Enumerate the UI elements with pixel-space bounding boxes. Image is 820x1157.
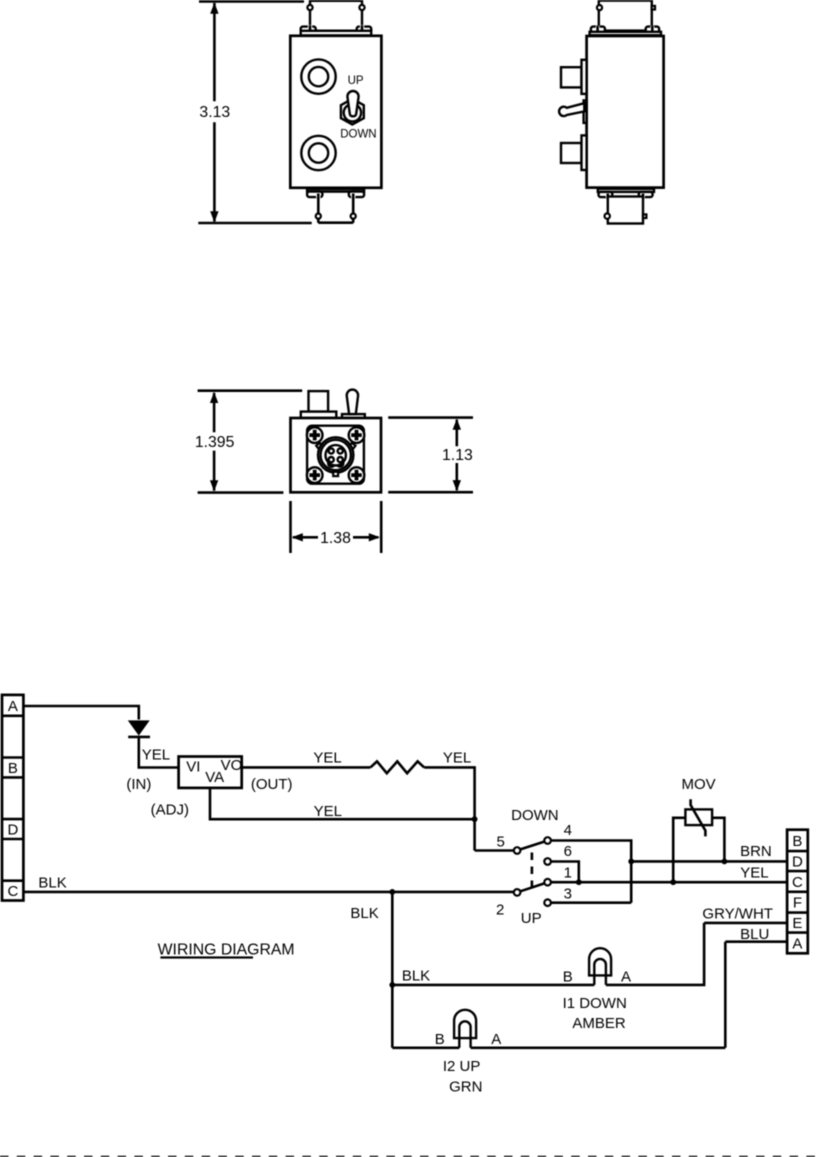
svg-text:DOWN: DOWN [340,129,376,141]
strip P2 divider 2 [787,870,808,873]
svg-text:(IN): (IN) [126,776,151,793]
lower panel connector outer circle [301,136,335,170]
svg-text:I1 DOWN: I1 DOWN [563,995,627,1012]
svg-text:AMBER: AMBER [572,1015,626,1032]
MOV right leg wire [712,818,724,862]
strip P1 divider 1 [2,714,23,717]
top connector plate (top view) [301,412,337,418]
bottom connector rectangle (side view) [608,197,643,224]
svg-text:3: 3 [564,885,572,902]
wire BLK corner to lamp I2 pin B [392,1047,459,1050]
bottom connector terminal circle left [316,214,321,219]
circular connector outer circle (top view) [318,437,353,472]
dimension extension line bottom-left (1.395) [198,491,284,494]
wire diode to regulator IN [139,738,179,768]
screw top-left [307,427,323,443]
toggle nut circle [344,104,361,121]
diode D1 cathode bar [128,736,150,739]
wire pin 1 to terminal C (right) [551,881,787,884]
wire regulator VO to resistor [242,766,371,769]
switch blade 5-4 [520,842,544,850]
wire lamp I2 pin A to BLU corner [471,1047,726,1050]
arrowhead down (1.395) [210,480,218,491]
svg-text:BLK: BLK [38,874,66,891]
mounting tab bottom-right (side view) [639,192,653,197]
toggle flange (side view) [584,100,587,123]
svg-text:I2 UP: I2 UP [443,1058,481,1075]
enclosure box (front view) [290,36,381,188]
dimension extension line top-right (1.13) [388,416,473,419]
wire bus to terminal D (right) [631,860,787,863]
switch pin 5 contact [514,847,521,854]
svg-text:A: A [491,1031,501,1048]
top connector barrel (top view) [309,391,329,412]
svg-text:4: 4 [564,822,572,839]
wire pin 3 to vertical bus [551,901,631,904]
dimension extension line right (1.38) [380,501,383,553]
svg-text:F: F [793,895,802,912]
switch pin 1 contact [544,879,551,886]
svg-text:BRN: BRN [740,843,772,860]
svg-text:6: 6 [564,843,572,860]
dimension extension line top (front view) [199,0,304,3]
dimension extension line top-left (1.395) [198,389,303,392]
svg-text:(ADJ): (ADJ) [151,801,189,818]
arrowhead right (1.38) [369,533,380,541]
svg-text:B: B [563,968,573,985]
contact pin 4 (top view connector) [338,457,343,462]
lamp I1 envelope [589,948,611,975]
top connector rectangle (side view) [599,1,652,31]
top connector terminal circle right [359,5,364,10]
upper panel connector outer circle [301,59,335,93]
arrowhead up (1.13) [453,419,461,430]
toggle plate (top view) [342,414,365,418]
varistor MOV body [685,809,712,825]
mounting tab bottom-left (front view) [307,192,322,198]
svg-text:BLK: BLK [402,967,430,984]
svg-text:C: C [7,883,18,900]
svg-text:5: 5 [497,833,505,850]
svg-text:D: D [7,822,18,839]
mounting tab top-left (front view) [301,27,316,33]
svg-text:B: B [792,833,802,850]
wire resistor to corner [424,767,474,850]
svg-text:1.13: 1.13 [442,447,473,464]
svg-text:1: 1 [564,864,572,881]
contact pin 3 (top view connector) [329,457,334,462]
svg-text:1.395: 1.395 [195,434,235,451]
dimension extension line left (1.38) [289,501,292,553]
svg-text:YEL: YEL [740,864,768,881]
svg-text:1.38: 1.38 [320,530,351,547]
dimension extension line bottom-right (1.13) [388,491,473,494]
wire C to switch pin 2 BLK [23,891,514,894]
wire GRY/WHT to terminal E [704,922,787,925]
dimension line 3.13 vertical [213,3,216,222]
strip P2 divider 5 [787,931,808,934]
wire pin 4 to vertical bus [551,841,631,903]
mounting plate bottom (side view) [598,189,654,192]
bottom connector terminal circle right [351,214,356,219]
wire regulator VA to ADJ node [210,788,475,819]
svg-text:VA: VA [205,769,224,786]
title underline [160,956,253,958]
lamp I1 filament loop [594,959,606,985]
dimension line 1.13 vertical [455,420,458,491]
dimension line 1.395 vertical [213,393,216,491]
dimension extension line bottom (front view) [198,222,311,225]
mounting tab top-right (side view) [646,27,659,33]
svg-text:UP: UP [348,75,364,87]
bottom connector terminal nub right (side view) [643,214,646,218]
toggle lever (side view) [559,103,584,116]
svg-text:GRN: GRN [449,1079,482,1096]
wire from A to diode [23,706,138,720]
svg-text:MOV: MOV [682,776,716,793]
screw bottom-left [307,467,323,483]
strip P1 divider 4 [2,818,23,821]
svg-text:YEL: YEL [142,746,170,763]
top connector terminal circle left [307,5,312,10]
svg-text:VI: VI [186,758,200,775]
svg-text:A: A [8,698,18,715]
strip P2 divider 1 [787,850,808,853]
svg-text:B: B [435,1031,445,1048]
svg-text:2: 2 [496,901,504,918]
bottom connector body wires (front view) [318,194,353,223]
svg-text:DOWN: DOWN [511,807,559,824]
arrowhead left (1.38) [292,533,303,541]
switch pin 3 contact [544,899,551,906]
junction node pin6/pin1 [576,879,582,885]
svg-text:YEL: YEL [313,750,341,767]
resistor R1 [370,761,424,773]
mounting tab bottom-right (front view) [349,192,364,198]
svg-text:D: D [792,854,803,871]
enclosure box (top view) [291,418,382,492]
switch pin 6 contact [544,858,551,865]
varistor MOV diagonal stroke [691,799,706,836]
switch blade 2-1 [520,883,544,891]
upper panel connector inner circle [309,67,328,86]
svg-text:3.13: 3.13 [199,104,230,121]
connector strip P1 (left) [2,695,23,901]
wire lamp I1 pin A to E corner [606,923,704,985]
strip P1 divider 2 [2,756,23,759]
svg-text:WIRING DIAGRAM: WIRING DIAGRAM [158,941,295,958]
toggle bat handle (top view) [347,390,358,415]
strip P1 divider 3 [2,776,23,779]
junction node MOV left leg [670,879,676,885]
pin bumps bottom (top view connector) [328,462,343,466]
lamp I2 envelope [454,1010,476,1038]
junction node BLK branch [389,889,395,895]
top connector terminal nub right (side view) [652,6,655,10]
junction node I1 branch [389,982,395,988]
junction node MOV right leg [722,859,728,865]
keying tab upper-right (top view connector) [349,443,355,449]
lower jack flange (side view) [582,135,587,170]
dimension line 1.38 horizontal [293,536,378,539]
svg-text:BLK: BLK [350,905,378,922]
wire BLU to terminal A [725,940,787,943]
keying tab bottom (top view connector) [333,472,338,476]
top connector terminal circle left (side view) [597,5,602,10]
wire terminal A corner down to lamp I2 [724,942,727,1048]
contact pin 2 (top view connector) [338,448,343,453]
screw top-right [349,427,365,443]
toggle bat handle (front view) [347,91,358,116]
MOV left leg wire [673,818,685,882]
toggle hex nut (front view) [341,99,364,125]
diode D1 anode triangle [128,720,150,735]
strip P2 divider 3 [787,890,808,893]
circular connector insert circle (top view) [326,445,346,465]
wire BLK vertical to lamps [391,892,394,1048]
strip P1 divider 6 [2,879,23,882]
mounting tab bottom-left (side view) [599,192,613,197]
switch pin 4 contact [544,837,551,844]
arrowhead down (1.13) [453,480,461,491]
svg-text:B: B [8,760,18,777]
switch mechanical link (dashed) [531,853,534,889]
wire corner to switch pin 5 [475,849,514,852]
junction node ADJ/OUT [472,816,478,822]
mounting tab top-left (side view) [591,27,605,33]
upper jack flange (side view) [582,60,587,94]
contact pin 1 (top view connector) [329,448,334,453]
svg-text:BLU: BLU [740,926,769,943]
lamp I2 filament loop [459,1021,470,1047]
svg-text:E: E [792,915,802,932]
connector flange square (top view) [307,426,364,484]
mounting plate top (front view) [301,31,372,36]
svg-text:(OUT): (OUT) [251,776,293,793]
connector strip P2 (right) [787,830,808,954]
strip P2 divider 4 [787,911,808,914]
upper jack barrel (side view) [561,67,582,87]
mounting plate bottom (front view) [307,189,364,192]
keying tab upper-left (top view connector) [316,443,322,449]
top connector rectangle (front view) [310,1,362,31]
arrowhead up (3.13) [210,3,218,14]
svg-text:YEL: YEL [314,803,342,820]
wire pin 6 jumper to pin 1 wire [551,862,579,883]
enclosure box (side view) [587,36,664,188]
bottom connector terminal circle left (side view) [605,213,610,218]
svg-text:GRY/WHT: GRY/WHT [702,906,773,923]
switch pin 2 contact [514,889,521,896]
svg-text:YEL: YEL [443,750,471,767]
mounting tab top-right (front view) [357,27,372,33]
junction node bus/D-wire [628,859,634,865]
screw bottom-right [349,467,365,483]
strip P1 divider 5 [2,838,23,841]
svg-text:A: A [792,936,802,953]
mounting plate top (side view) [590,32,661,35]
arrowhead down (3.13) [210,211,218,222]
arrowhead up (1.395) [210,392,218,403]
lower panel connector inner circle [309,143,328,162]
svg-text:C: C [792,874,803,891]
page break dashed line (bottom) [0,1156,820,1157]
svg-text:UP: UP [521,910,542,927]
circular connector ring (top view) [321,440,351,470]
lower jack barrel (side view) [561,143,582,163]
svg-text:A: A [621,968,631,985]
wire BLK to lamp I1 pin B [392,984,594,987]
voltage regulator U1 box [179,757,242,788]
